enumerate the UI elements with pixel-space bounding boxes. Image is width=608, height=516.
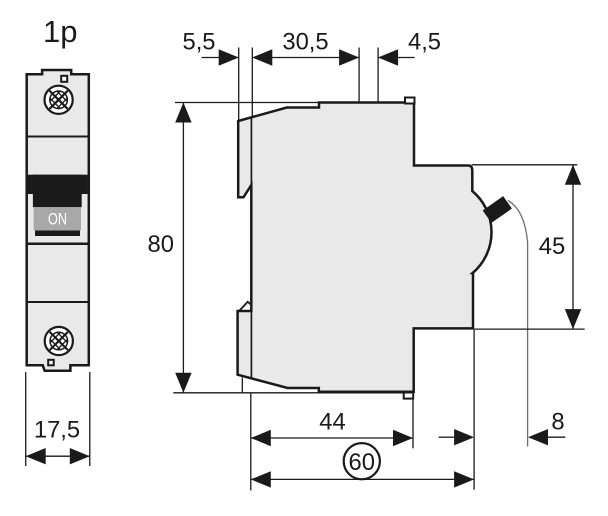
svg-text:80: 80 — [148, 231, 174, 258]
dimension 45 arrow down — [565, 309, 581, 329]
dimension 30,5 arrow left — [252, 49, 272, 65]
extension line 8/60 right — [473, 330, 475, 490]
extension line b — [251, 48, 253, 118]
dimension 17,5 arrow right — [70, 448, 90, 464]
svg-text:4,5: 4,5 — [408, 28, 441, 55]
dimension 8 arrow right — [528, 429, 548, 445]
svg-text:17,5: 17,5 — [34, 417, 80, 444]
dimension 44 arrow right — [393, 430, 413, 446]
dimension 60 line — [251, 478, 474, 480]
side view: body edge behind top flange — [250, 118, 252, 187]
front view: top indicator square — [61, 76, 67, 82]
extension line d — [377, 48, 379, 103]
dimension 5,5 leader line — [202, 57, 239, 59]
dimension 4,5 leader line — [378, 57, 415, 59]
dimension 44 line — [251, 437, 413, 439]
dimension 30,5 arrow right — [339, 49, 359, 65]
dimension 45 bottom reference line — [473, 328, 585, 330]
front view: seam line 3 — [27, 301, 89, 303]
side view: top-right tab — [405, 98, 415, 104]
dimension 80 arrow up — [175, 103, 191, 123]
svg-text:60: 60 — [349, 449, 375, 476]
front view: toggle bottom bar — [35, 231, 80, 237]
dimension 80 top reference line — [175, 102, 320, 104]
front view: seam line 1 — [27, 136, 89, 138]
dimension 17,5 line — [26, 455, 90, 457]
dimension 60 circle — [344, 443, 380, 479]
extension line a — [238, 48, 240, 122]
toggle lever Q — [483, 196, 512, 223]
svg-text:ON: ON — [48, 210, 67, 228]
dimension 80 bottom reference line — [173, 392, 413, 394]
dimension 17,5 extension line right — [89, 372, 91, 466]
dimension 80 arrow down — [175, 373, 191, 393]
dimension 44 arrow left — [251, 430, 271, 446]
dimension 45 arrow up — [565, 165, 581, 185]
front view: black toggle recess band — [28, 175, 88, 194]
front view: bottom indicator square — [48, 360, 54, 366]
side view: DIN clip triangle — [239, 302, 251, 311]
dimension 5,5 arrow — [219, 49, 239, 65]
dimension 45 line — [572, 165, 574, 329]
extension line 44 right — [412, 400, 414, 449]
front view: breaker body — [27, 70, 89, 371]
front view: ON button — [34, 207, 81, 230]
front view: top screw — [45, 86, 73, 114]
svg-text:5,5: 5,5 — [182, 29, 215, 56]
dimension 30,5 line — [252, 57, 359, 59]
dimension 17,5 extension line left — [25, 372, 27, 466]
dimension 8 leader right — [548, 436, 565, 438]
side view: body outline — [238, 103, 492, 392]
front view: black recess center — [33, 175, 82, 208]
side view: bottom-right tab — [404, 392, 414, 399]
svg-text:1p: 1p — [43, 14, 77, 49]
dimension 60 arrow left — [251, 471, 271, 487]
dimension 17,5 arrow left — [26, 448, 46, 464]
svg-text:8: 8 — [551, 409, 564, 436]
dimension 8 leader left — [439, 436, 455, 438]
svg-text:44: 44 — [319, 408, 345, 435]
side view: body edge behind bottom flange — [250, 311, 252, 379]
extension line c — [358, 48, 360, 103]
dimension 4,5 arrow — [378, 49, 398, 65]
svg-text:30,5: 30,5 — [282, 28, 328, 55]
front view: seam line 2 — [27, 242, 89, 245]
dimension 45 top reference line — [472, 164, 578, 166]
extension line 44/60 left — [250, 393, 252, 491]
dimension 80 line — [182, 103, 184, 393]
dimension 8 arrow left — [454, 429, 474, 445]
toggle swing arc — [508, 201, 528, 447]
extension line 44 left stub — [241, 378, 243, 394]
svg-text:45: 45 — [539, 233, 565, 260]
front view: bottom screw — [45, 327, 73, 355]
dimension 60 arrow right — [454, 471, 474, 487]
